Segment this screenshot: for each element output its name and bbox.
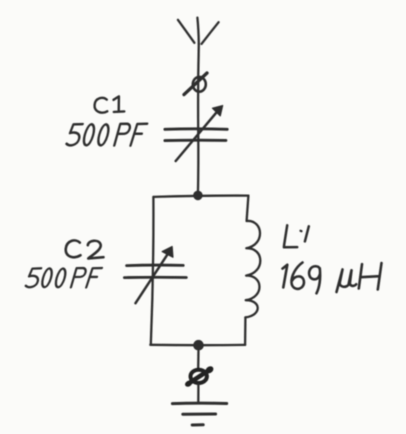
label 169 uH — [283, 263, 382, 294]
wire connector J2 to ground — [197, 385, 199, 402]
connector J1 (circle with slash) — [184, 73, 207, 95]
wire node B to connector J2 — [197, 349, 200, 368]
label 500PF (C1 value) — [66, 124, 147, 146]
label C2 — [66, 240, 104, 258]
label C1 — [95, 96, 125, 112]
tank loop bottom wire — [150, 344, 245, 347]
node B (bottom junction dot) — [194, 341, 203, 350]
ground — [172, 403, 226, 425]
tank loop top wire — [153, 196, 248, 197]
capacitor C1 (variable) — [165, 106, 227, 161]
antenna — [178, 18, 219, 44]
wire antenna to C1 — [197, 44, 200, 129]
wire C1 to node A — [197, 129, 200, 196]
connector J2 (bold circle with slash) — [184, 365, 215, 388]
capacitor C2 (variable) — [124, 247, 186, 304]
inductor L1: right wire + 4 coil bumps — [245, 196, 260, 345]
label L1 — [284, 225, 309, 247]
tank loop left wire — [151, 197, 154, 345]
label 500PF (C2 value) — [25, 268, 102, 287]
node A (top junction dot) — [194, 191, 202, 199]
